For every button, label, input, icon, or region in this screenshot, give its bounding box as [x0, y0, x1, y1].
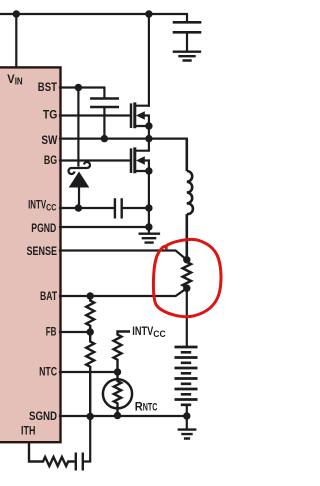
svg-text:TG: TG	[43, 108, 58, 122]
svg-text:NTC: NTC	[39, 364, 57, 378]
svg-text:INTVCC: INTVCC	[132, 324, 166, 340]
svg-text:BST: BST	[38, 80, 58, 94]
svg-text:ITH: ITH	[21, 424, 35, 438]
svg-text:BG: BG	[44, 153, 57, 167]
svg-text:FB: FB	[46, 324, 57, 338]
svg-text:SGND: SGND	[29, 409, 57, 423]
svg-text:RNTC: RNTC	[135, 399, 158, 413]
svg-text:SW: SW	[41, 133, 58, 147]
svg-text:SENSE: SENSE	[27, 244, 58, 258]
svg-text:PGND: PGND	[31, 221, 56, 235]
svg-text:BAT: BAT	[40, 289, 58, 303]
